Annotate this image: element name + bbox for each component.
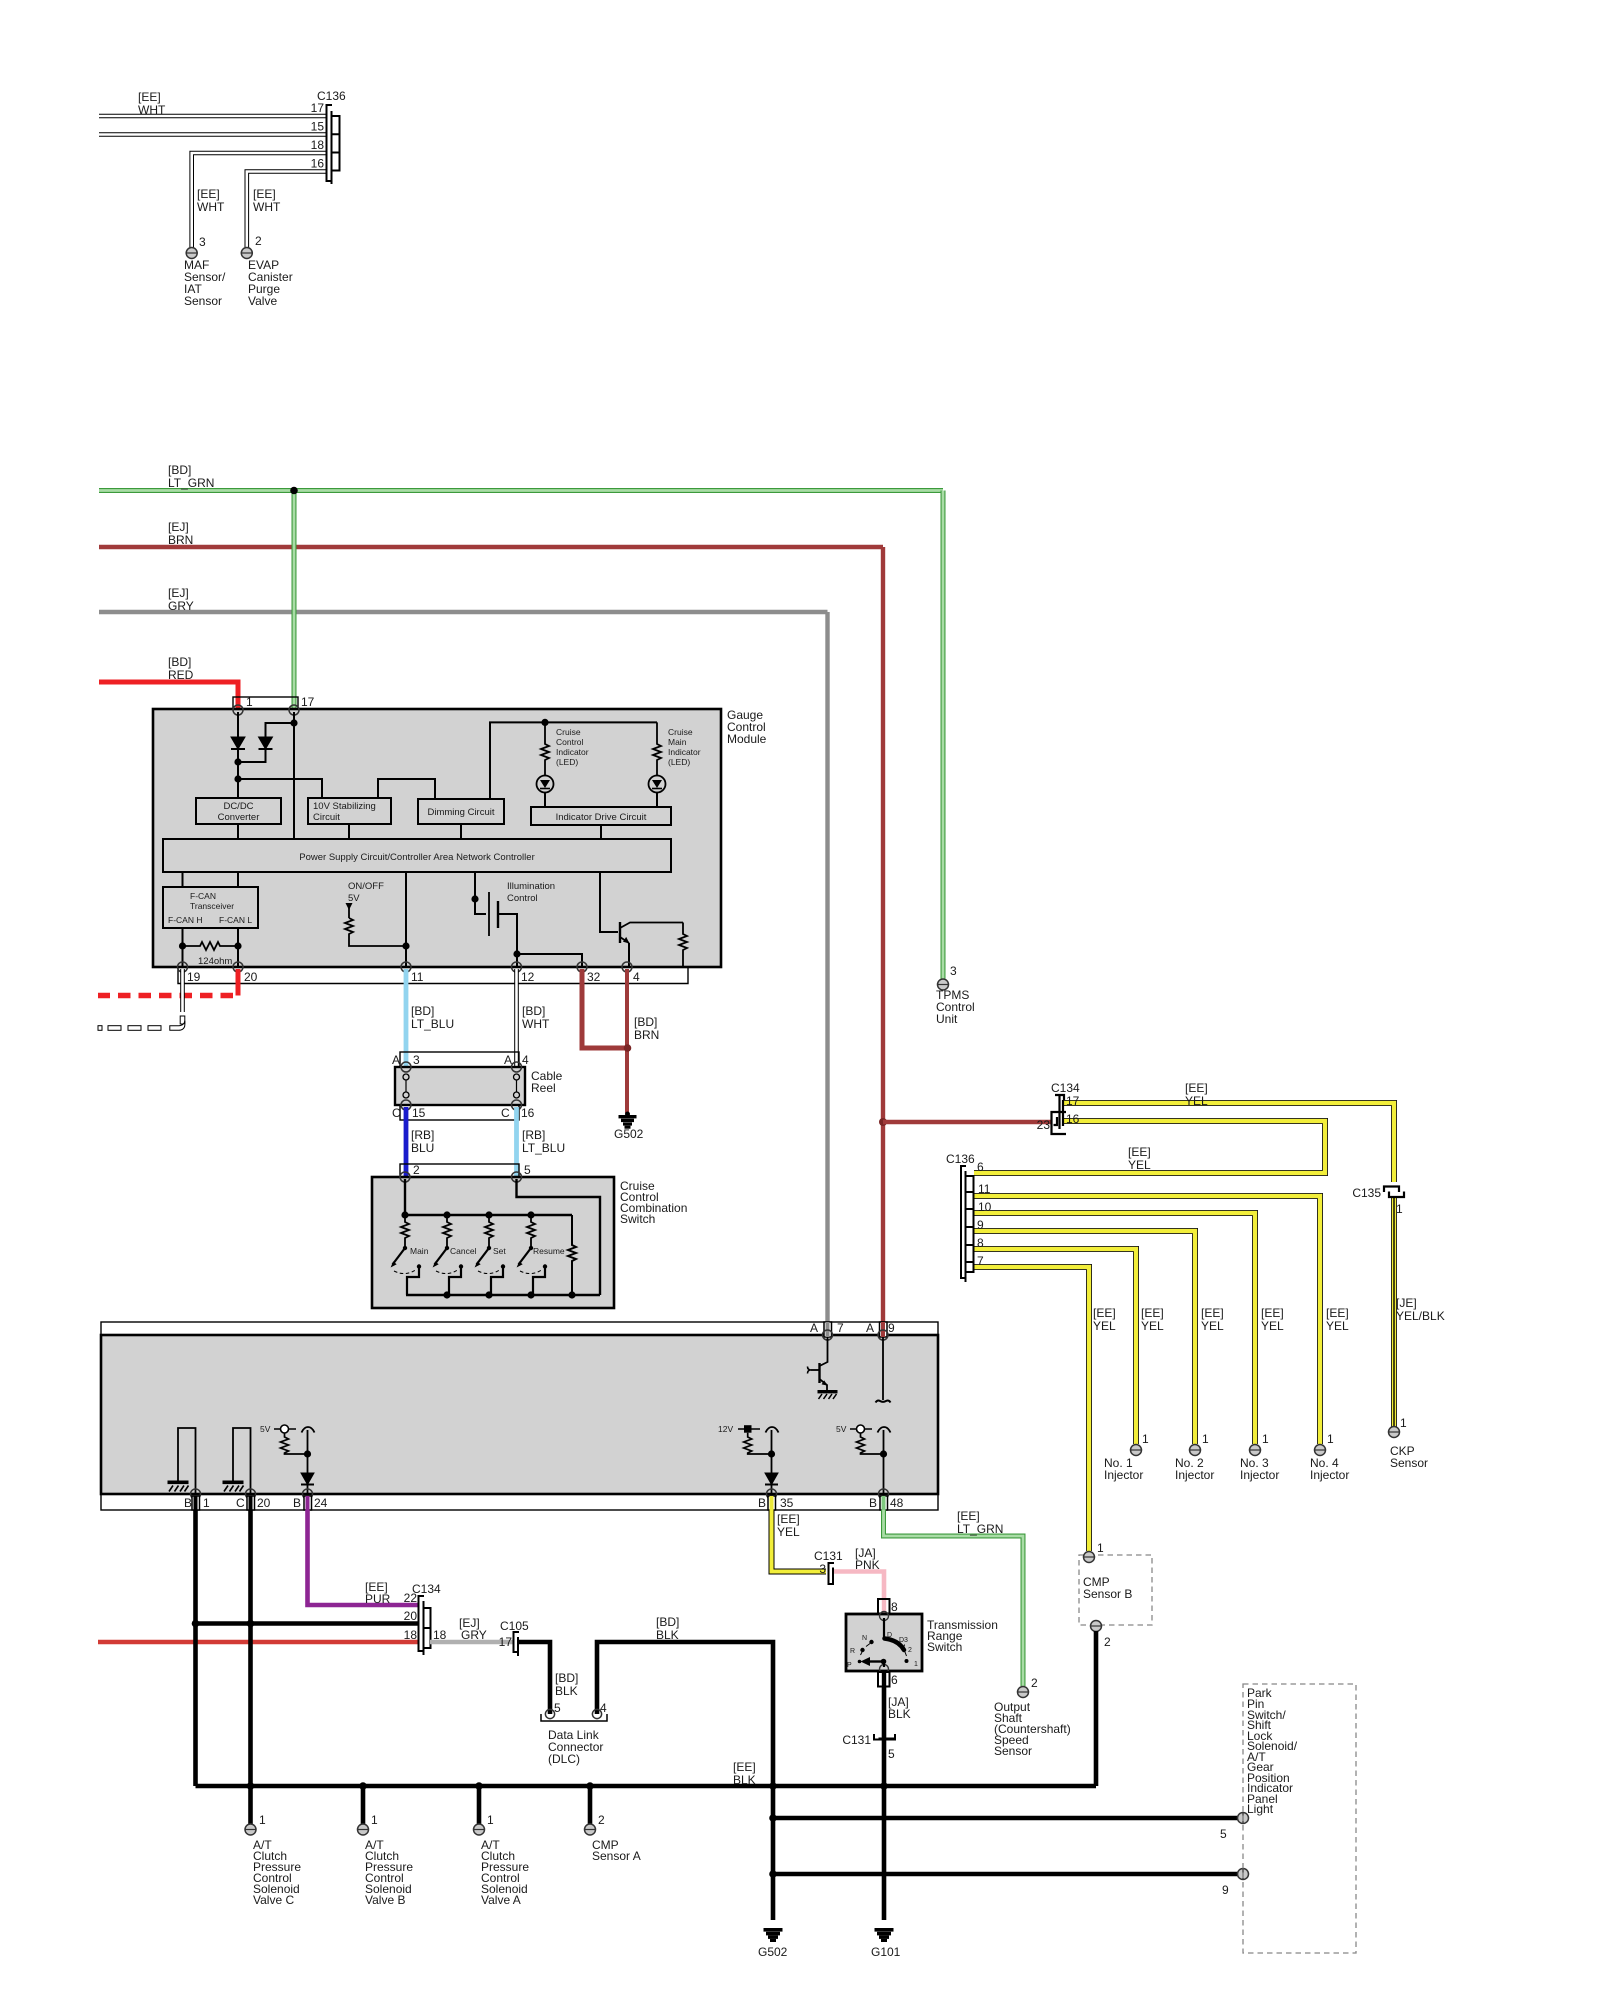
label CMP Sensor B — [1083, 1575, 1132, 1601]
riser indicator drive to PS box — [600, 825, 602, 839]
svg-text:[RB]: [RB] — [522, 1128, 545, 1142]
cable reel pin labels A3 A4 — [392, 1053, 529, 1067]
svg-text:Reel: Reel — [531, 1081, 556, 1095]
tap to CMP sensor A — [588, 1786, 593, 1824]
connector C134 (bottom) — [419, 1596, 431, 1655]
svg-text:[BD]: [BD] — [555, 1671, 578, 1685]
TRS position labels — [847, 1632, 918, 1669]
svg-text:(DLC): (DLC) — [548, 1752, 580, 1766]
svg-text:1: 1 — [1142, 1432, 1149, 1446]
svg-text:B: B — [184, 1496, 192, 1510]
junction dots park feeds — [769, 1814, 777, 1878]
label Illumination Control — [507, 881, 555, 904]
svg-text:1: 1 — [1097, 1541, 1104, 1555]
svg-text:23: 23 — [1037, 1118, 1051, 1132]
ground G502 (bottom) — [764, 1929, 782, 1942]
5V pullup at B48 — [836, 1424, 891, 1494]
svg-text:Transceiver: Transceiver — [190, 901, 234, 911]
svg-text:2: 2 — [255, 234, 262, 248]
svg-text:[BD]: [BD] — [411, 1004, 434, 1018]
wire [EE] YEL B35 to C131 pin 3 — [772, 1510, 827, 1572]
svg-text:Control: Control — [507, 893, 538, 904]
label [JE] YEL/BLK — [1396, 1296, 1445, 1323]
svg-text:1: 1 — [1400, 1416, 1407, 1430]
riser dimming to PS box — [460, 824, 462, 839]
svg-text:YEL: YEL — [777, 1525, 800, 1539]
svg-text:5: 5 — [1220, 1827, 1227, 1841]
wire [BD] BLK DLC pin 4 to G502 — [597, 1642, 773, 1920]
wire [EE] YEL C136-11 to No.4 injector — [974, 1196, 1320, 1444]
wire [EE] LT_GRN B48 to output shaft sensor — [884, 1510, 1024, 1686]
label [EE] YEL (pin6 link) — [1128, 1145, 1151, 1172]
ground G101 — [875, 1929, 893, 1942]
svg-text:Light: Light — [1247, 1802, 1274, 1816]
svg-text:C136: C136 — [946, 1152, 975, 1166]
svg-text:Injector: Injector — [1310, 1468, 1349, 1482]
svg-text:C: C — [392, 1106, 401, 1120]
svg-text:[EE]: [EE] — [1326, 1306, 1349, 1320]
wire to pin 32 — [517, 954, 582, 967]
svg-text:R: R — [850, 1648, 855, 1655]
svg-text:16: 16 — [521, 1106, 535, 1120]
C134 pin labels 17 16 23 — [1037, 1094, 1080, 1132]
ECM/PCM box — [101, 1335, 938, 1494]
svg-text:16: 16 — [311, 157, 325, 171]
connector C136 (top left) — [327, 105, 340, 184]
svg-text:10V Stabilizing: 10V Stabilizing — [313, 801, 376, 812]
pin A9 labels — [866, 1321, 895, 1335]
labels [EE] YEL column (five) — [1093, 1306, 1349, 1333]
svg-text:2: 2 — [1031, 1676, 1038, 1690]
cable reel pin labels C15 C16 — [392, 1106, 535, 1120]
svg-text:Power Supply Circuit/Controlle: Power Supply Circuit/Controller Area Net… — [299, 852, 534, 863]
pin 1 circle — [233, 705, 243, 715]
connector C134 (right) — [1052, 1095, 1067, 1134]
bottom bus — [406, 1294, 600, 1296]
wire [JA] BLK TRS to G101 — [882, 1686, 887, 1920]
svg-text:Indicator: Indicator — [668, 747, 701, 757]
box DC/DC converter — [196, 798, 281, 824]
ground G502 (upper) — [619, 1112, 636, 1128]
svg-text:10: 10 — [978, 1200, 992, 1214]
svg-text:Cruise: Cruise — [668, 727, 693, 737]
label TPMS Control Unit — [936, 988, 975, 1026]
svg-text:1: 1 — [203, 1496, 210, 1510]
svg-text:C: C — [501, 1106, 510, 1120]
svg-text:Module: Module — [727, 732, 767, 746]
label Transmission Range Switch — [927, 1618, 998, 1654]
svg-text:1: 1 — [259, 1813, 266, 1827]
connector C135 — [1384, 1187, 1404, 1198]
svg-text:1: 1 — [371, 1813, 378, 1827]
svg-text:Sensor: Sensor — [1390, 1456, 1428, 1470]
label Cruise Main Indicator (LED) — [668, 727, 701, 767]
diode at B35 — [765, 1473, 778, 1494]
riser DC/DC to PS box — [237, 824, 239, 839]
cable reel bottom pin circles — [401, 1100, 522, 1110]
svg-text:Illumination: Illumination — [507, 881, 555, 892]
wire rail 10V to dimming — [378, 779, 435, 799]
svg-text:Cruise: Cruise — [556, 727, 581, 737]
svg-text:Unit: Unit — [936, 1012, 958, 1026]
svg-text:32: 32 — [587, 970, 601, 984]
svg-text:G101: G101 — [871, 1945, 901, 1959]
wire [EE] YEL C136-10 to No.3 injector — [974, 1213, 1255, 1444]
svg-text:4: 4 — [600, 1701, 607, 1715]
svg-text:3: 3 — [819, 1562, 826, 1576]
label [BD] RED — [168, 655, 194, 682]
svg-text:[BD]: [BD] — [168, 463, 191, 477]
svg-text:4: 4 — [522, 1053, 529, 1067]
svg-text:A: A — [504, 1053, 512, 1067]
wire PS to pin 11 — [405, 872, 407, 967]
wire [BD] BLK C105 to DLC pin 5 — [519, 1642, 550, 1714]
label [BD] LT_GRN — [168, 463, 214, 490]
wire [EE] BLK B1 down to ground bus — [193, 1510, 198, 1786]
svg-text:3: 3 — [413, 1053, 420, 1067]
LED cruise control indicator — [537, 776, 554, 808]
cable reel bottom bracket — [400, 1105, 519, 1120]
svg-text:BRN: BRN — [168, 533, 193, 547]
junction dot LT_GRN branch — [290, 487, 298, 495]
wire [JA] PNK C131 to TRS pin 8 — [834, 1572, 884, 1601]
svg-text:18: 18 — [404, 1628, 418, 1642]
svg-text:YEL: YEL — [1326, 1319, 1349, 1333]
svg-text:9: 9 — [1222, 1883, 1229, 1897]
svg-text:5V: 5V — [348, 893, 360, 904]
svg-text:[BD]: [BD] — [634, 1015, 657, 1029]
svg-text:A: A — [810, 1321, 818, 1335]
svg-text:[EE]: [EE] — [197, 187, 220, 201]
svg-text:11: 11 — [978, 1182, 991, 1196]
svg-text:Injector: Injector — [1175, 1468, 1214, 1482]
switch top bus — [405, 1179, 572, 1215]
svg-text:Sensor: Sensor — [994, 1744, 1032, 1758]
svg-text:Valve: Valve — [248, 294, 277, 308]
svg-text:1: 1 — [1396, 1202, 1403, 1216]
svg-text:LT_BLU: LT_BLU — [411, 1017, 454, 1031]
svg-text:8: 8 — [891, 1600, 898, 1614]
TRS pin circles — [880, 1612, 889, 1674]
internal ground staple C20 — [233, 1428, 251, 1494]
ground symbol C20 — [223, 1481, 244, 1492]
gauge module bottom bracket — [178, 968, 688, 984]
wire [BD] LT_GRN horizontal to TPMS branch — [99, 488, 943, 493]
riser PS to F-CAN left — [182, 872, 184, 887]
wire CMP sensor B pin2 to ground bus — [1094, 1631, 1099, 1786]
svg-text:C131: C131 — [842, 1733, 871, 1747]
pin labels 17 15 18 16 — [311, 101, 325, 171]
svg-text:LT_GRN: LT_GRN — [168, 476, 214, 490]
svg-text:D3: D3 — [899, 1637, 908, 1644]
B-row pin labels — [184, 1496, 904, 1510]
svg-text:17: 17 — [1066, 1094, 1080, 1108]
connector C105 — [514, 1632, 520, 1656]
diode D-a from pin1 — [231, 712, 245, 762]
svg-text:Control: Control — [556, 737, 584, 747]
svg-text:[EE]: [EE] — [1141, 1306, 1164, 1320]
TRS pin 6 holder — [878, 1672, 898, 1687]
label [JA] BLK — [888, 1695, 911, 1721]
svg-text:BLK: BLK — [888, 1707, 911, 1721]
svg-text:Injector: Injector — [1104, 1468, 1143, 1482]
junction dot pin11 net — [402, 942, 409, 949]
terminal 3 TPMS control unit — [938, 964, 958, 990]
label [EE] WHT main — [138, 90, 166, 117]
internal connection at A9 — [876, 1337, 891, 1403]
svg-text:Cancel: Cancel — [450, 1246, 477, 1256]
svg-text:C135: C135 — [1352, 1186, 1381, 1200]
wire W18 [EE] WHT C136 pin 18 to MAF sensor — [192, 153, 326, 248]
svg-text:Switch: Switch — [620, 1212, 655, 1226]
svg-text:Circuit: Circuit — [313, 812, 340, 823]
svg-text:Indicator: Indicator — [556, 747, 589, 757]
terminal 9 park pin switch — [1222, 1869, 1249, 1898]
svg-text:5V: 5V — [260, 1424, 271, 1434]
svg-text:20: 20 — [257, 1496, 271, 1510]
wire [BD] WHT pin 12 to cable reel A4 — [514, 969, 519, 1067]
box power supply / CAN controller — [163, 839, 671, 872]
svg-text:PUR: PUR — [365, 1592, 391, 1606]
svg-text:A: A — [392, 1053, 400, 1067]
ECM bottom pin bracket — [101, 1494, 938, 1510]
svg-text:DC/DC: DC/DC — [223, 801, 253, 812]
svg-text:2: 2 — [908, 1647, 912, 1654]
svg-text:YEL: YEL — [1185, 1094, 1208, 1108]
cable reel inner contacts — [403, 1074, 520, 1098]
label EVAP Canister Purge Valve — [248, 258, 293, 308]
svg-text:2: 2 — [413, 1163, 420, 1177]
svg-text:(LED): (LED) — [668, 757, 690, 767]
park pin switch dashed box — [1243, 1684, 1356, 1953]
svg-text:11: 11 — [411, 970, 424, 984]
terminal 1 CMP sensor B — [1084, 1541, 1105, 1563]
label Data Link Connector (DLC) — [548, 1728, 603, 1766]
wire pin17 net down to PS box — [293, 725, 295, 839]
svg-text:[JE]: [JE] — [1396, 1296, 1417, 1310]
svg-text:[EE]: [EE] — [777, 1512, 800, 1526]
terminal 1 A/T clutch solenoid B — [358, 1813, 379, 1835]
svg-text:9: 9 — [888, 1321, 895, 1335]
svg-text:A: A — [866, 1321, 874, 1335]
wire [EE] YEL C134-17 to C135 — [1063, 1103, 1394, 1182]
label [EE] LT_GRN — [957, 1509, 1003, 1536]
svg-text:1: 1 — [1327, 1432, 1334, 1446]
wire W15 [EE] WHT to C136 pin 15 — [99, 132, 326, 137]
wire [EJ] BRN horizontal — [99, 545, 883, 549]
connector C131 pin 3 — [829, 1563, 835, 1584]
svg-text:F-CAN: F-CAN — [190, 891, 216, 901]
label [EE] YEL (CKP feed) — [1185, 1081, 1208, 1108]
BJT indicator output — [600, 872, 683, 967]
CMP sensor B dashed box — [1079, 1555, 1152, 1625]
internal ground at A7 — [818, 1391, 837, 1400]
wire [BD] BRN pin 4 down — [625, 969, 629, 1113]
label MAF Sensor/IAT Sensor — [184, 258, 226, 308]
riser 10V to PS box — [348, 824, 350, 839]
bottom pin circles 19 20 11 12 32 4 — [178, 962, 633, 972]
svg-text:2: 2 — [598, 1813, 605, 1827]
svg-text:Sensor A: Sensor A — [592, 1849, 641, 1863]
ON/OFF 5V source — [346, 881, 385, 918]
svg-text:17: 17 — [499, 1635, 513, 1649]
5V pullup at B24 — [260, 1424, 315, 1473]
wire diode bus down to DC/DC — [237, 762, 239, 798]
wire LT_GRN vertical to TPMS — [941, 491, 946, 980]
svg-text:17: 17 — [311, 101, 325, 115]
svg-text:BLU: BLU — [411, 1141, 434, 1155]
illumination control riser — [475, 872, 486, 914]
bottom bus junction dots — [443, 1291, 575, 1298]
label [EE] PUR — [365, 1580, 391, 1606]
terminal 2 CMP sensor B — [1091, 1621, 1112, 1650]
transmission range switch box — [846, 1614, 922, 1671]
label [RB] LT_BLU — [522, 1128, 565, 1155]
terminal 1 CKP sensor — [1389, 1416, 1408, 1438]
label [EE] BLK (bus) — [733, 1760, 756, 1787]
cruise control combination switch box — [372, 1177, 614, 1308]
cable reel box — [395, 1067, 525, 1105]
terminal 1 A/T clutch solenoid C — [245, 1813, 266, 1835]
resistor 124ohm — [183, 942, 239, 950]
svg-text:B: B — [869, 1496, 877, 1510]
junction dot pin17 net — [290, 719, 297, 726]
label [EJ] BRN — [168, 520, 193, 547]
svg-text:Resume: Resume — [533, 1246, 565, 1256]
wire [EE] YEL C136-7 to CMP sensor B — [974, 1267, 1089, 1551]
svg-text:YEL: YEL — [1201, 1319, 1224, 1333]
svg-text:6: 6 — [977, 1160, 984, 1174]
wire W17 [EE] WHT to C136 pin 17 — [99, 114, 326, 119]
svg-text:GRY: GRY — [168, 599, 194, 613]
transistor A7 emitter arrow — [822, 1380, 828, 1385]
label Cruise Control Combination Switch — [620, 1179, 687, 1226]
box indicator drive circuit — [531, 807, 671, 825]
svg-text:[EE]: [EE] — [733, 1760, 756, 1774]
wire [EE] YEL C136-8 to No.1 injector — [974, 1249, 1136, 1444]
terminal 1 A/T clutch solenoid A — [474, 1813, 495, 1835]
svg-text:[BD]: [BD] — [656, 1615, 679, 1629]
junction dots 124ohm — [179, 942, 186, 949]
wire F-CAN L to pin 20 — [237, 928, 239, 967]
DLC pin circles — [545, 1709, 601, 1718]
svg-text:Main: Main — [668, 737, 687, 747]
svg-text:LT_GRN: LT_GRN — [957, 1522, 1003, 1536]
svg-text:5: 5 — [554, 1701, 561, 1715]
svg-text:LT_BLU: LT_BLU — [522, 1141, 565, 1155]
svg-text:[EE]: [EE] — [1093, 1306, 1116, 1320]
B-row pin holders with wire colors — [192, 1496, 888, 1510]
wire [EJ] GRY horizontal — [99, 610, 828, 614]
svg-text:ON/OFF: ON/OFF — [348, 881, 384, 892]
label [BD] BRN — [634, 1015, 659, 1042]
wire [EJ] GRY C134 to C105 — [430, 1640, 513, 1644]
svg-text:[RB]: [RB] — [411, 1128, 434, 1142]
svg-text:17: 17 — [301, 695, 315, 709]
resistor ON/OFF — [345, 918, 406, 946]
cable reel pin circles top — [401, 1062, 522, 1072]
DLC pin labels — [554, 1701, 607, 1715]
terminal 1 No.1 injector — [1131, 1432, 1150, 1456]
svg-text:4: 4 — [633, 970, 640, 984]
svg-text:22: 22 — [404, 1591, 418, 1605]
resistor collector load — [679, 923, 687, 968]
top bus junction dots — [401, 1211, 534, 1218]
svg-text:Sensor B: Sensor B — [1083, 1587, 1132, 1601]
wire RED dashed to left — [98, 993, 233, 999]
label [BD] BLK (DLC drop) — [555, 1671, 578, 1698]
svg-text:C134: C134 — [1051, 1081, 1080, 1095]
switch branch Set — [475, 1215, 507, 1295]
terminal 2 EVAP canister purge valve — [241, 234, 262, 259]
label [EE] WHT (EVAP branch) — [253, 187, 281, 214]
TRS rotary contact — [861, 1618, 905, 1667]
svg-text:C105: C105 — [500, 1619, 529, 1633]
svg-text:6: 6 — [891, 1673, 898, 1687]
svg-text:(LED): (LED) — [556, 757, 578, 767]
wire BLK branch to C134 pin 20 — [196, 1621, 419, 1626]
svg-text:YEL: YEL — [1261, 1319, 1284, 1333]
svg-text:9: 9 — [977, 1218, 984, 1232]
svg-text:8: 8 — [977, 1236, 984, 1250]
pin A9 holder — [878, 1322, 888, 1340]
terminal 2 output shaft sensor — [1018, 1676, 1039, 1698]
svg-text:20: 20 — [244, 970, 258, 984]
svg-text:Set: Set — [493, 1246, 506, 1256]
svg-text:YEL: YEL — [1141, 1319, 1164, 1333]
label Gauge Control Module — [727, 708, 767, 746]
junction dot supply rail — [234, 775, 241, 782]
switch pin circles 2 5 — [400, 1172, 522, 1182]
wire [EE] YEL C134-16 U-turn to C136-6 — [974, 1121, 1325, 1173]
svg-text:[EE]: [EE] — [1128, 1145, 1151, 1159]
wire GRY vertical to ECM A7 — [825, 612, 829, 1335]
svg-text:[EE]: [EE] — [138, 90, 161, 104]
svg-text:BRN: BRN — [634, 1028, 659, 1042]
label [EE] WHT (MAF branch) — [197, 187, 225, 214]
svg-text:[BD]: [BD] — [168, 655, 191, 669]
wire [BD] LT_BLU pin 11 to cable reel A3 — [404, 969, 409, 1067]
svg-text:F-CAN L: F-CAN L — [219, 915, 252, 925]
label CKP Sensor — [1390, 1444, 1428, 1470]
terminal 5 park pin switch — [1220, 1813, 1249, 1842]
svg-text:12V: 12V — [718, 1424, 733, 1434]
svg-text:Switch: Switch — [927, 1640, 962, 1654]
svg-text:YEL: YEL — [1128, 1158, 1151, 1172]
wire supply rail to 10V box — [238, 779, 322, 798]
svg-text:BLK: BLK — [555, 1684, 578, 1698]
terminal 2 CMP sensor A — [585, 1813, 606, 1835]
wire [JE] YEL/BLK C135 to CKP sensor — [1391, 1198, 1397, 1427]
ground bus [EE] BLK — [196, 1784, 1097, 1789]
svg-text:Injector: Injector — [1240, 1468, 1279, 1482]
svg-text:15: 15 — [311, 120, 325, 134]
svg-text:Valve A: Valve A — [481, 1893, 521, 1907]
svg-text:WHT: WHT — [522, 1017, 550, 1031]
svg-text:WHT: WHT — [197, 200, 225, 214]
svg-text:RED: RED — [168, 668, 194, 682]
svg-text:35: 35 — [780, 1496, 794, 1510]
LED feed rail from dimming circuit — [490, 722, 657, 799]
svg-text:D: D — [887, 1632, 892, 1639]
svg-text:P: P — [847, 1662, 852, 1669]
12V pullup at B35 — [718, 1424, 779, 1473]
label [RB] BLU — [411, 1128, 434, 1155]
svg-text:7: 7 — [837, 1321, 844, 1335]
svg-text:BLK: BLK — [656, 1628, 679, 1642]
label [EJ] GRY — [168, 586, 194, 613]
riser PS to F-CAN right — [237, 872, 239, 887]
